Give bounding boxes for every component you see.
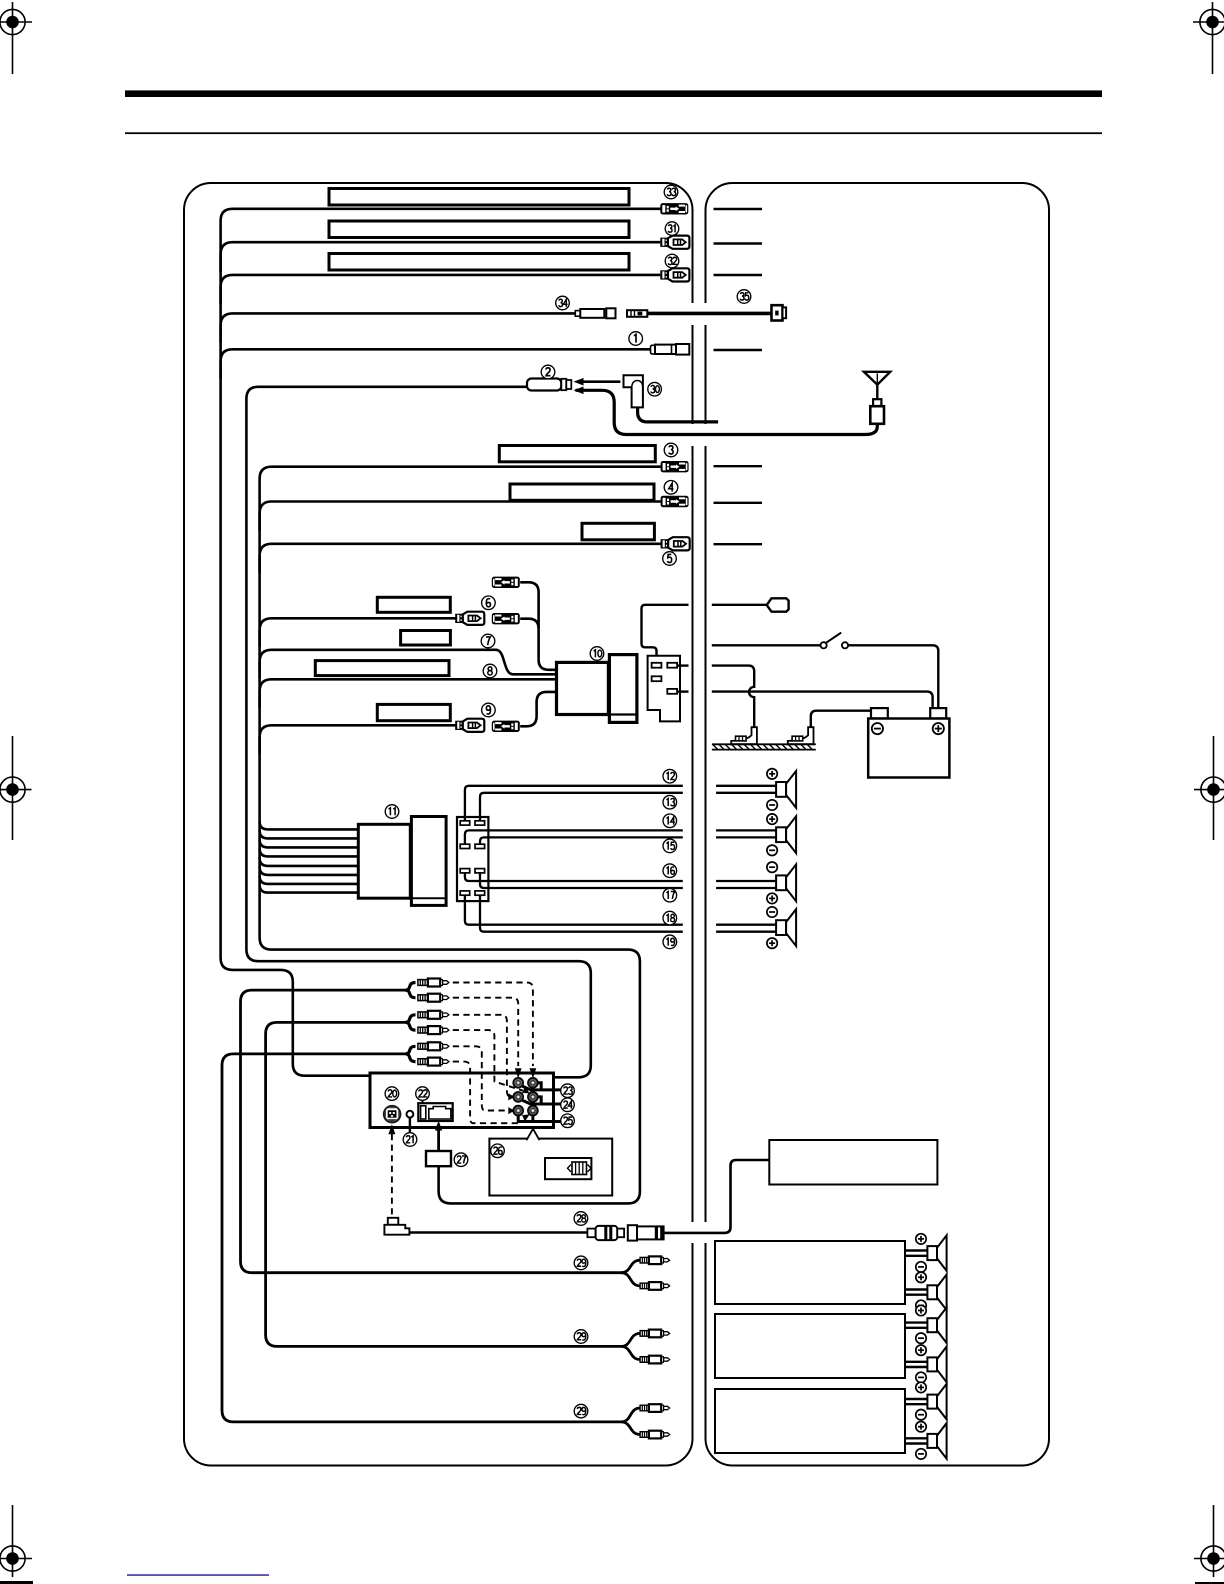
label (11): [385, 805, 399, 819]
wire 1 lead: [221, 349, 651, 379]
socket pins row 3: [460, 869, 470, 873]
amplifier box 3 speaker 1 polarity: [916, 1382, 926, 1392]
remote sensor box 26: [489, 1139, 612, 1196]
connector 1 (power lead barrel): [651, 344, 690, 355]
connector 31 (bullet female): [660, 236, 689, 249]
amplifier box 1 speaker 2: [927, 1275, 946, 1311]
wire 18 (speaker lead): [465, 895, 683, 925]
right-angle plug of cord 28: [384, 1218, 409, 1235]
label (5): [663, 552, 677, 566]
dashed route plug1 to jack col2 row1: [453, 983, 533, 1067]
label (30): [648, 382, 662, 396]
amplifier box 3 speaker 2: [927, 1423, 946, 1459]
registration mark middle-right: [1194, 736, 1224, 840]
label (9): [482, 703, 496, 717]
RCA cord 2 (audio L/R) plug B: [418, 1026, 449, 1034]
border gaps for crossing cables: [690, 303, 695, 325]
wire pair to speaker rear-left: [716, 880, 776, 882]
cord 28 plug A: [587, 1226, 624, 1240]
wire 34 lead: [221, 313, 576, 343]
RCA cord 1 (video) plug B: [418, 994, 449, 1002]
footer blue rule: [127, 1574, 269, 1576]
connector 32 (bullet female): [660, 268, 689, 281]
amplifier box 2: [715, 1314, 905, 1378]
RCA cord 1 (video) upper branch: [406, 983, 416, 991]
stub lead for 5: [714, 543, 763, 545]
label (7): [481, 634, 495, 648]
dashed route plug5 to jack col1 row3: [453, 1046, 511, 1110]
ignition switch cord: [712, 644, 820, 646]
dashed cord from jack 20 to right-angle plug: [391, 1134, 393, 1216]
RCA cord 1 (video) lower branch: [406, 990, 416, 998]
reset hole 21: [407, 1111, 414, 1118]
registration mark bottom-right: [1194, 1505, 1224, 1577]
adapter 30 (antenna plug adapter): [624, 375, 643, 407]
cord 29-2 plug A: [640, 1330, 670, 1338]
label (18): [663, 911, 677, 925]
label (27): [454, 1153, 468, 1167]
adapter box 27: [426, 1151, 451, 1166]
speaker rear-right: [776, 909, 796, 946]
stub lead for 3: [714, 465, 763, 467]
chassis ground bar with hatching: [712, 743, 816, 745]
jack 2 (antenna input jack): [527, 379, 571, 391]
label (29) cord 1: [574, 1256, 588, 1270]
connector 22: [418, 1100, 452, 1121]
cord 29-2 split to plugs: [621, 1333, 640, 1346]
accessory plug (ignition key symbol): [767, 598, 789, 611]
dashed route plug4 to jack col2 row2: [453, 1030, 523, 1091]
cord 29-1 split to plugs: [621, 1260, 640, 1273]
connector pair 6 female, cord to relay box 10: [520, 619, 557, 670]
label (23): [561, 1084, 575, 1098]
RCA jack row 3 col 2: [528, 1105, 539, 1116]
RCA cord 3 (audio L/R) upper branch: [406, 1046, 416, 1054]
registration mark top-left: [0, 2, 32, 74]
label (35): [737, 290, 751, 304]
speaker front-right polarity marks: [767, 814, 777, 824]
RCA cord 2 (audio L/R) plug A: [418, 1011, 449, 1019]
wire 2 antenna lead (to monitor unit right side): [246, 387, 590, 1078]
ground clamp 2: [788, 727, 814, 744]
cord 29-3 plug A: [640, 1404, 670, 1412]
connector 11 plug: [358, 824, 410, 898]
wire 13 (speaker lead): [480, 793, 683, 822]
RCA cord 1 (video) main run down left rail to bottom cord: [241, 990, 622, 1273]
wire 3 lead (rail continues to cord of box 27): [260, 467, 661, 1204]
RCA cord 2 (audio L/R) main run down left rail to bottom cord: [266, 1022, 621, 1346]
RCA jack row 1 col 1: [513, 1078, 524, 1089]
wire 15 (speaker lead): [480, 837, 683, 844]
RCA cord 2 (audio L/R) upper branch: [406, 1015, 416, 1023]
ignition switch: [821, 633, 849, 649]
wire 31 lead: [221, 242, 661, 272]
speaker front-right: [776, 816, 796, 853]
RCA cord 3 (audio L/R) main run down left rail to bottom cord: [222, 1054, 621, 1422]
amplifier box 2 speaker 2 polarity: [916, 1345, 926, 1355]
harness wire 6 to connector 11: [260, 867, 359, 875]
RCA cord 1 (video) plug A: [418, 979, 449, 987]
cord 29-3 split to plugs: [621, 1408, 640, 1422]
label (19): [663, 935, 677, 949]
label box for wire 8: [315, 661, 449, 676]
RCA cord 3 (audio L/R) plug B: [418, 1058, 449, 1066]
RCA jack row 1 col 2: [528, 1078, 539, 1089]
wire 5 lead: [260, 544, 661, 573]
cord 28 socket B: [628, 1225, 664, 1240]
wire 17 (speaker lead): [480, 872, 683, 888]
cord 29-1 plug A: [640, 1256, 670, 1264]
ground clamp 1: [731, 727, 757, 744]
relay box 10 connector: [609, 655, 637, 723]
cord 28 run to TV tuner box: [663, 1160, 770, 1233]
wire 32 lead: [221, 275, 661, 304]
wire 9 lead: [260, 725, 456, 754]
speaker front-left: [776, 771, 796, 808]
car battery: [868, 708, 949, 777]
connector 3 (spade terminal): [661, 461, 689, 472]
dashed route plug6 to jack col2 row3: [453, 1062, 520, 1124]
speaker multi-socket strip: [457, 817, 488, 901]
amplifier box 3 speaker 1 wires: [905, 1398, 927, 1400]
amplifier box 3 speaker 2 wires: [905, 1437, 927, 1439]
label (32): [665, 254, 679, 268]
label (25): [561, 1114, 575, 1128]
label (21): [403, 1133, 417, 1147]
RCA cord 3 (audio L/R) lower branch: [406, 1054, 416, 1062]
connector 11 receptacle: [411, 817, 446, 906]
fuse terminal 1: [652, 663, 662, 668]
speaker rear-left polarity marks: [767, 862, 777, 872]
amplifier box 1: [715, 1241, 905, 1304]
harness wire 1 to connector 11: [260, 821, 359, 829]
vehicle antenna cord with arrow into jack 2: [576, 390, 878, 434]
amplifier box 2 speaker 1 polarity: [916, 1305, 926, 1315]
label (28): [574, 1212, 588, 1226]
amplifier box 1 speaker 2 wires: [905, 1288, 927, 1290]
label (26): [491, 1144, 505, 1158]
amplifier box 2 speaker 1: [927, 1307, 946, 1343]
arrow from cord 27 into connector 22: [437, 1130, 440, 1152]
socket pins row 1: [460, 821, 470, 825]
relay box 10 body: [557, 662, 609, 714]
harness wire 5 to connector 11: [260, 858, 359, 866]
socket pins row 2: [460, 844, 470, 848]
cord 29-2 plug B: [640, 1356, 670, 1364]
page corner bar bottom-right: [1195, 1582, 1224, 1584]
label (12): [663, 769, 677, 783]
label (1): [629, 332, 643, 346]
cable 35: [647, 312, 771, 316]
wire 14 (speaker lead): [465, 830, 683, 844]
amplifier box 1 speaker 1: [927, 1235, 946, 1271]
amplifier box 3: [715, 1389, 905, 1453]
wire pair to speaker front-left: [716, 785, 776, 787]
battery cord from fuse holder: [677, 690, 688, 692]
wire 12 (speaker lead): [465, 786, 683, 822]
stub lead for 1: [714, 349, 763, 351]
arrow from adapter 30 into jack 2: [582, 380, 620, 383]
vehicle antenna symbol: [864, 372, 890, 424]
label box for wire 4: [510, 484, 654, 500]
wire 4 lead: [260, 502, 661, 532]
line to label 24: [523, 1100, 561, 1104]
label (15): [663, 839, 677, 853]
amplifier box 1 speaker 2 polarity: [916, 1272, 926, 1282]
fuse terminal 4: [667, 689, 677, 694]
battery holder icon in box 26: [545, 1158, 591, 1179]
label box for wire 3: [499, 446, 655, 462]
left container box (supplied cables): [184, 183, 693, 1466]
harness wire 4 to connector 11: [260, 848, 359, 856]
cord 28 left segment: [409, 1231, 587, 1234]
label box for wire 33: [329, 189, 629, 206]
label (20): [385, 1087, 399, 1101]
header thick rule: [125, 90, 1102, 97]
connector 4 (spade terminal): [661, 496, 689, 507]
header thin rule: [125, 132, 1102, 134]
label (10): [590, 647, 604, 661]
connector 5 (bullet female): [661, 537, 690, 550]
wire 19 (speaker lead): [480, 895, 683, 932]
stub lead for 33: [714, 208, 763, 210]
stub lead for 32: [714, 274, 763, 276]
label box for wire 7: [401, 631, 451, 646]
right container box (vehicle side): [706, 183, 1050, 1466]
label box for wire 6: [377, 597, 450, 612]
wire pair to speaker rear-right: [716, 924, 776, 926]
speaker rear-left: [776, 864, 796, 901]
label (34): [556, 296, 570, 310]
connector pair 9 male: [455, 719, 484, 732]
label (31): [665, 222, 679, 236]
stub lead for 4: [714, 502, 763, 504]
label (4): [664, 481, 678, 495]
cord of adapter 30: [638, 407, 719, 422]
dashed route plug2 to jack col1 row1: [453, 998, 518, 1066]
wire 33 lead (runs down left rail to monitor unit): [221, 209, 661, 1076]
TV tuner box: [769, 1140, 937, 1185]
stub lead for 31: [714, 242, 763, 244]
registration mark middle-left: [0, 736, 32, 840]
amplifier box 3 speaker 1: [927, 1384, 946, 1420]
label (8): [483, 664, 497, 678]
amplifier box 3 speaker 2 polarity: [916, 1422, 926, 1432]
label box for wire 5: [582, 523, 654, 540]
accessory cord from fuse holder to plug: [642, 605, 689, 656]
battery minus symbol: [872, 723, 883, 734]
registration mark top-right: [1193, 2, 1224, 74]
RCA cord 3 (audio L/R) plug A: [418, 1042, 449, 1050]
label box for wire 9: [377, 704, 450, 720]
wire 16 (speaker lead): [465, 872, 683, 881]
label (16): [663, 864, 677, 878]
label (3): [664, 443, 678, 457]
label (13): [663, 795, 677, 809]
RCA jack row 2 col 1: [513, 1092, 524, 1103]
wire pair to speaker front-right: [716, 829, 776, 831]
harness wire 8 to connector 11: [260, 885, 359, 893]
connector 34 mate (plug of cable 35): [627, 310, 647, 317]
amplifier box 1 speaker 1 polarity: [916, 1234, 926, 1244]
ground cord from fuse holder: [677, 664, 688, 666]
wire 7 lead: [260, 650, 557, 678]
label (29) cord 3: [574, 1404, 588, 1418]
battery negative cord to ground: [811, 711, 874, 728]
label (29) cord 2: [574, 1330, 588, 1344]
amplifier box 1 speaker 1 wires: [905, 1249, 927, 1251]
connector 33 (spade terminal): [660, 203, 688, 214]
harness wire 3 to connector 11: [260, 839, 359, 847]
harness wire 7 to connector 11: [260, 876, 359, 884]
fuse holder on box 10: [648, 656, 680, 722]
amplifier box 2 speaker 1 wires: [905, 1321, 927, 1323]
RCA jack row 3 col 1: [513, 1105, 524, 1116]
line to label 25: [518, 1115, 560, 1121]
cord 29-3 plug B: [640, 1431, 670, 1439]
cord 29-1 plug B: [640, 1282, 670, 1290]
label (6): [482, 596, 496, 610]
S-video jack 20: [383, 1105, 402, 1124]
label (14): [663, 814, 677, 828]
wire 6 lead: [260, 618, 456, 647]
label (17): [663, 888, 677, 902]
speaker rear-right polarity marks: [767, 907, 777, 917]
connector pair 9 female, cord to relay box 10: [520, 692, 557, 726]
line to label 23: [523, 1086, 561, 1090]
label box for wire 32: [329, 254, 629, 271]
speaker front-left polarity marks: [767, 769, 777, 779]
amplifier box 2 speaker 2: [927, 1347, 946, 1383]
label (33): [664, 185, 678, 199]
fuse terminal 3: [652, 676, 662, 681]
connector pair 6 male: [455, 612, 484, 625]
RCA cord 2 (audio L/R) lower branch: [406, 1022, 416, 1030]
RCA jack row 2 col 2: [528, 1092, 539, 1103]
registration mark bottom-left: [0, 1505, 32, 1577]
label (22): [416, 1087, 430, 1101]
fuse terminal 2: [667, 663, 677, 668]
connector 34 (antenna extension socket): [575, 308, 615, 318]
monitor unit rear panel: [370, 1073, 554, 1128]
spare female bullet above pair 6: [520, 582, 538, 628]
battery plus symbol: [933, 723, 944, 734]
socket pins row 4: [460, 891, 470, 895]
page corner bar bottom-left: [0, 1581, 33, 1584]
label (2): [541, 365, 555, 379]
label (24): [561, 1098, 575, 1112]
callout pointer from unit to box 26: [527, 1129, 540, 1140]
wire 8 lead: [260, 679, 557, 708]
dashed route plug3 to jack col1 row2: [453, 1015, 511, 1097]
harness wire 2 to connector 11: [260, 830, 359, 838]
label box for wire 31: [329, 221, 629, 238]
plug 35 (display connector): [772, 305, 787, 320]
amplifier box 2 speaker 2 wires: [905, 1361, 927, 1363]
